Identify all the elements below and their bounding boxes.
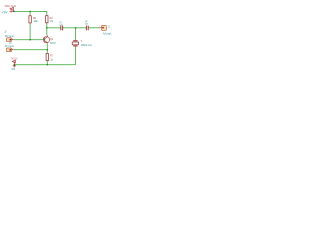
svg-text:RF Input: RF Input xyxy=(5,34,14,38)
junction at +9V xyxy=(13,11,15,13)
svg-text:PWR_FLAG: PWR_FLAG xyxy=(5,4,17,8)
wire R2 bottom to collector xyxy=(46,23,48,36)
wire R1 bottom to base line xyxy=(29,23,31,40)
wire resonator bottom to gnd bus xyxy=(75,46,77,64)
wire R1 top stub xyxy=(29,11,31,15)
svg-text:47k: 47k xyxy=(50,19,54,23)
capacitor C2 xyxy=(85,26,88,31)
junction base node xyxy=(29,39,31,41)
resistor R3 xyxy=(46,53,48,60)
wire ground bus xyxy=(14,64,75,66)
connector J3 xyxy=(6,48,11,52)
wire base line xyxy=(14,39,45,41)
svg-text:+9V: +9V xyxy=(1,10,8,14)
transistor Q1 xyxy=(43,35,49,43)
svg-text:455kHz reso: 455kHz reso xyxy=(81,43,93,47)
junction gnd flag xyxy=(14,64,16,66)
junction resonator tap xyxy=(75,27,77,29)
svg-text:1: 1 xyxy=(12,38,13,40)
wire emitter to R3 xyxy=(46,43,48,53)
ground xyxy=(13,64,15,67)
svg-text:10n: 10n xyxy=(85,22,89,26)
resistor R2 xyxy=(46,16,48,23)
svg-text:J2: J2 xyxy=(4,30,6,34)
svg-text:10n: 10n xyxy=(59,23,62,27)
wire AF input to emitter xyxy=(14,49,48,51)
svg-text:J1: J1 xyxy=(108,25,111,29)
capacitor C1 xyxy=(59,26,62,31)
resonator Y1 xyxy=(73,40,77,41)
wire R3 bottom xyxy=(46,61,48,65)
resistor R1 xyxy=(29,16,31,23)
svg-text:1: 1 xyxy=(12,48,13,50)
connector J1 xyxy=(99,27,101,29)
svg-text:1: 1 xyxy=(99,26,100,28)
wire collector node to C1 xyxy=(47,27,61,29)
svg-text:BC547: BC547 xyxy=(50,41,56,45)
svg-text:Q1: Q1 xyxy=(50,37,53,41)
svg-text:Y1: Y1 xyxy=(81,39,83,43)
svg-text:10k: 10k xyxy=(33,19,38,23)
svg-text:PWR_FLAG: PWR_FLAG xyxy=(11,56,18,60)
wire resonator top xyxy=(75,28,77,40)
wire C2 to J1 pin xyxy=(88,27,99,29)
junction emitter node xyxy=(47,49,49,51)
junction collector node xyxy=(46,27,48,29)
wire +9V rail horizontal xyxy=(13,10,46,12)
wire rail corner down into R2 xyxy=(46,11,48,15)
power flag GND xyxy=(13,63,15,65)
junction R3 gnd xyxy=(47,64,49,66)
svg-text:AF Input: AF Input xyxy=(5,44,15,48)
svg-text:GND: GND xyxy=(11,67,15,71)
svg-text:Vout: Vout xyxy=(103,32,112,36)
power port +9V xyxy=(11,10,14,12)
connector J2 xyxy=(6,38,11,42)
junction R1 top xyxy=(29,11,31,13)
wire C1 to C2 xyxy=(63,27,86,29)
power flag +9V xyxy=(12,9,14,11)
